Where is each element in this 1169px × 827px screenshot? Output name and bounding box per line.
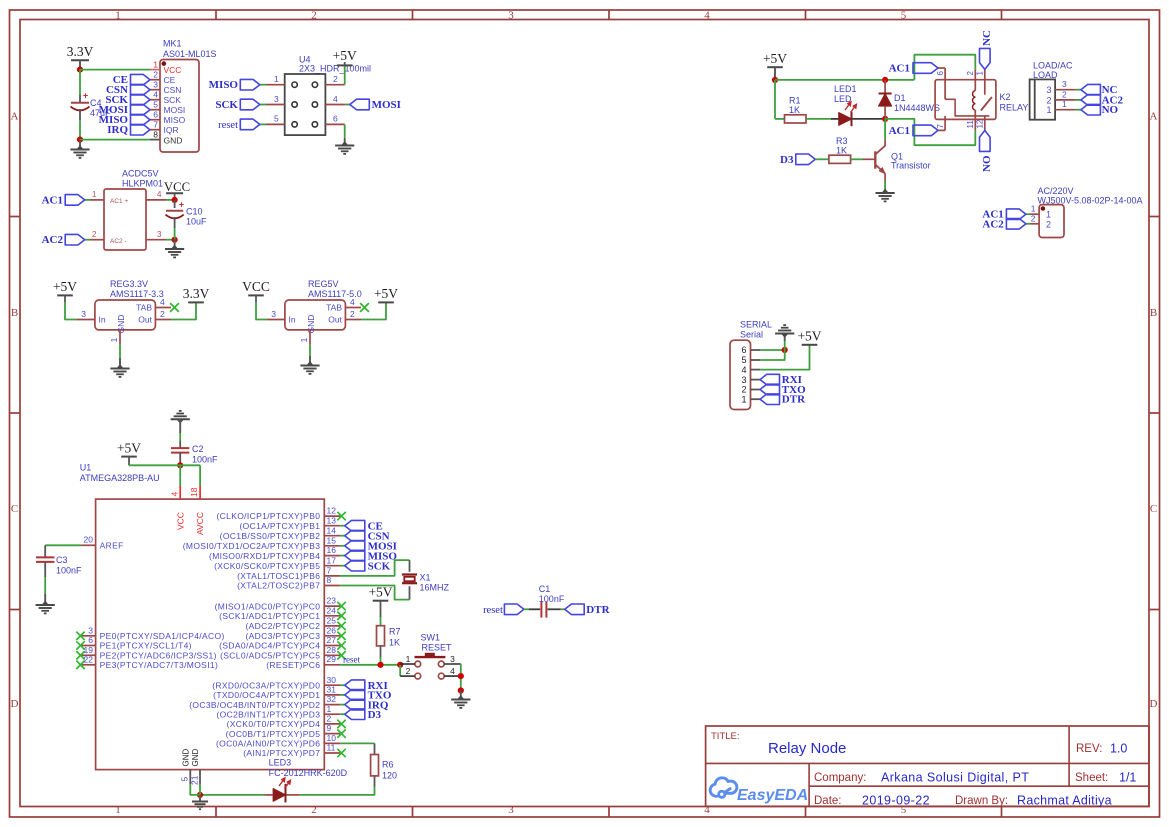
- MCU pin 13 PB1 to net CE: [324, 525, 340, 527]
- svg-text:reset: reset: [483, 605, 503, 616]
- svg-text:16MHZ: 16MHZ: [420, 583, 450, 593]
- svg-text:CE: CE: [164, 75, 176, 85]
- svg-text:1: 1: [741, 394, 746, 404]
- SERIAL pin 2 stub: [751, 389, 761, 391]
- svg-text:(XTAL1/TOSC1)PB6: (XTAL1/TOSC1)PB6: [237, 571, 320, 581]
- svg-text:SCK: SCK: [368, 560, 391, 572]
- svg-text:Relay Node: Relay Node: [768, 740, 846, 757]
- svg-text:5: 5: [153, 99, 158, 109]
- wire SERIAL pin6 to ground: [760, 349, 785, 351]
- power flag 3.3V at REG3.3V output: [188, 301, 204, 303]
- svg-text:1.0: 1.0: [1110, 742, 1127, 756]
- wire REG3.3V gnd: [119, 344, 121, 358]
- svg-text:3: 3: [450, 654, 455, 664]
- svg-text:23: 23: [327, 596, 337, 606]
- connector LOAD/AC body: [1030, 79, 1056, 119]
- svg-text:7: 7: [327, 565, 332, 575]
- svg-text:reset: reset: [218, 120, 238, 131]
- svg-text:AC1 +: AC1 +: [110, 198, 128, 205]
- svg-text:ACDC5V: ACDC5V: [122, 169, 159, 179]
- wire AREF to C3: [45, 544, 81, 546]
- svg-text:SCK: SCK: [215, 99, 238, 111]
- wire +5V to R7: [380, 617, 382, 626]
- net port reset at U4: [240, 119, 259, 130]
- relay K2 common contact path pin 6 pin 7: [944, 68, 946, 99]
- net port D3 at Q1 base: [796, 154, 816, 165]
- svg-text:+5V: +5V: [333, 48, 357, 63]
- REG3.3V pin 4 TAB no-connect: [155, 307, 171, 309]
- LOAD pin 2: [1055, 99, 1075, 101]
- net port MISO at U4: [240, 79, 259, 90]
- svg-text:100nF: 100nF: [192, 455, 218, 465]
- svg-text:5: 5: [741, 355, 746, 365]
- svg-text:Company:: Company:: [814, 772, 866, 784]
- wire SERIAL pin4 to +5V: [760, 345, 810, 369]
- MCU pin 1 PD3 to net D3: [324, 713, 340, 715]
- svg-text:Drawn By:: Drawn By:: [955, 795, 1008, 807]
- svg-text:2: 2: [741, 385, 746, 395]
- svg-text:11: 11: [966, 120, 975, 129]
- svg-text:(SCK1/ADC1/PTCY)PC1: (SCK1/ADC1/PTCY)PC1: [219, 611, 320, 621]
- svg-text:Serial: Serial: [740, 330, 763, 340]
- net port MISO at MCU: [345, 550, 365, 561]
- svg-text:2: 2: [327, 714, 332, 724]
- svg-text:3.3V: 3.3V: [183, 286, 210, 301]
- wire +5V down to R1: [774, 80, 776, 119]
- MCU pin 16 PB4 to net MISO: [324, 555, 340, 557]
- net port DTR at C1: [565, 604, 585, 615]
- MCU pin 10 PD6 to R6: [324, 742, 340, 744]
- wire gnd rail to MK1 pin 8: [80, 139, 150, 141]
- svg-text:WJ500V-5.08-02P-14-00A: WJ500V-5.08-02P-14-00A: [1038, 196, 1143, 206]
- svg-text:13: 13: [327, 515, 337, 525]
- svg-text:(XCK0/SCK0/PTCXY)PB5: (XCK0/SCK0/PTCXY)PB5: [214, 561, 320, 571]
- AC/220V pin 1: [1030, 213, 1039, 215]
- MCU pin 12 PB0 no-connect: [324, 515, 340, 517]
- svg-text:100nF: 100nF: [539, 594, 565, 604]
- svg-text:X1: X1: [420, 573, 431, 583]
- MK1 pin 7 IQR: [150, 129, 160, 131]
- svg-text:NO: NO: [1102, 104, 1119, 116]
- svg-text:IQR: IQR: [164, 125, 179, 135]
- MCU pin 7 PB6 XTAL1: [324, 575, 340, 577]
- svg-text:(MISO0/RXD1/PTCXY)PB4: (MISO0/RXD1/PTCXY)PB4: [209, 551, 320, 561]
- header U4 2X3_HDR_100mil body: [285, 74, 326, 135]
- junction dot ACDC5V gnd node: [172, 237, 178, 243]
- svg-text:3: 3: [157, 230, 162, 239]
- ground at U4: [344, 138, 346, 144]
- svg-text:1: 1: [1046, 105, 1051, 115]
- svg-text:5: 5: [274, 114, 279, 124]
- transistor Q1 NPN: [884, 140, 886, 146]
- wire PB6 to crystal X1 top: [340, 560, 409, 576]
- wire GND pins to junction: [190, 785, 200, 795]
- svg-text:LED3: LED3: [269, 758, 292, 768]
- junction dot D1 anode top: [882, 77, 888, 83]
- svg-text:VCC: VCC: [242, 279, 270, 294]
- svg-text:(XCK0/T0/PTCXY)PD4: (XCK0/T0/PTCXY)PD4: [227, 719, 321, 729]
- module ACDC5V HLKPM01 body: [104, 189, 146, 250]
- net port MOSI at MK1: [131, 104, 151, 115]
- svg-text:2: 2: [966, 71, 975, 76]
- relay K2 coil: [974, 70, 976, 91]
- svg-text:1: 1: [1031, 204, 1036, 214]
- relay K2 pin 1 NC contact: [984, 69, 986, 94]
- net port AC1 at relay pin 6: [938, 67, 945, 69]
- MCU pin 31 PD1 to net TXO: [324, 694, 340, 696]
- svg-text:15: 15: [327, 535, 337, 545]
- resistor R6 120: [371, 755, 379, 776]
- SW1 pin 1 connection: [400, 663, 415, 665]
- MCU pin 11 PD7 no-connect: [324, 752, 340, 754]
- wire +5V rail to D1 and relay: [775, 79, 914, 81]
- net port NC at LOAD: [1081, 84, 1101, 95]
- MCU pin 24 PC1 no-connect: [324, 615, 340, 617]
- regulator REG3.3V AMS1117-3.3 body: [95, 300, 155, 330]
- svg-text:VCC: VCC: [175, 512, 185, 530]
- svg-text:17: 17: [327, 555, 337, 565]
- MCU pin 20 AREF: [81, 544, 96, 546]
- wire Out to +5V flag: [361, 303, 386, 320]
- svg-text:+5V: +5V: [763, 51, 787, 66]
- svg-text:3: 3: [274, 94, 279, 104]
- U4 pin 3: [266, 104, 285, 106]
- relay K2 pin 12 NO contact: [984, 116, 986, 130]
- svg-text:GND: GND: [191, 749, 200, 767]
- svg-text:2: 2: [92, 230, 97, 239]
- svg-text:GND: GND: [116, 315, 126, 334]
- MCU pin 21 GND stub: [199, 770, 201, 785]
- svg-text:Transistor: Transistor: [891, 161, 931, 171]
- MCU pin 8 PB7 XTAL2: [324, 585, 340, 587]
- svg-text:EasyEDA: EasyEDA: [737, 787, 808, 804]
- svg-text:3: 3: [508, 804, 514, 816]
- ground above C2: [178, 420, 183, 423]
- svg-text:1/1: 1/1: [1119, 771, 1136, 785]
- svg-text:29: 29: [327, 654, 337, 664]
- SERIAL pin 3 stub: [751, 379, 761, 381]
- svg-text:1K: 1K: [789, 105, 800, 115]
- svg-text:NO: NO: [981, 155, 993, 172]
- net port SCK at MCU: [345, 560, 365, 571]
- wire LED3 to GND junction: [265, 794, 273, 796]
- svg-text:LED: LED: [834, 94, 852, 104]
- U4 pin 5: [266, 123, 285, 125]
- svg-text:4: 4: [333, 94, 338, 104]
- capacitor C1 100nF: [540, 602, 542, 618]
- relay K2 switch blade: [981, 97, 992, 111]
- svg-text:6: 6: [741, 345, 746, 355]
- junction dot LED3 gnd node: [197, 792, 203, 798]
- ground below REG5V: [309, 356, 311, 364]
- svg-text:A: A: [11, 111, 19, 123]
- svg-text:C1: C1: [539, 584, 551, 594]
- svg-text:24: 24: [327, 605, 337, 615]
- SW1 pin 2 connection: [399, 665, 401, 676]
- capacitor C3 100nF: [44, 545, 46, 557]
- title block frame: [706, 726, 1149, 806]
- capacitor C4 47uF: [79, 95, 81, 102]
- MCU pin 18 AVCC stub: [199, 486, 201, 499]
- svg-text:DTR: DTR: [782, 394, 806, 406]
- svg-text:PE1(PTCXY/SCL1/T4): PE1(PTCXY/SCL1/T4): [100, 641, 192, 651]
- resistor R3 1K: [829, 155, 851, 163]
- svg-text:4: 4: [153, 89, 158, 99]
- MCU pin 27 PC4 no-connect: [324, 645, 340, 647]
- svg-text:2: 2: [1031, 213, 1036, 223]
- net port reset at C1: [504, 604, 524, 615]
- svg-text:MOSI: MOSI: [164, 105, 186, 115]
- svg-text:1K: 1K: [836, 146, 847, 156]
- junction dot SW1 reset node: [397, 662, 403, 668]
- svg-text:(ADC2/PTCY)PC2: (ADC2/PTCY)PC2: [245, 621, 320, 631]
- MCU pin 3 PE0 no-connect: [81, 635, 96, 637]
- wire D3 to R3: [815, 158, 829, 160]
- svg-text:1: 1: [153, 59, 158, 69]
- svg-text:4: 4: [350, 297, 355, 307]
- svg-text:R1: R1: [789, 96, 801, 106]
- svg-text:1: 1: [406, 654, 411, 664]
- ground below C4: [79, 140, 81, 148]
- svg-text:1: 1: [327, 704, 332, 714]
- svg-text:AVCC: AVCC: [195, 512, 205, 535]
- net port AC1 at ACDC5V: [65, 195, 85, 206]
- svg-text:REG3.3V: REG3.3V: [110, 279, 148, 289]
- net port IRQ at MCU PD: [345, 699, 365, 710]
- svg-text:2: 2: [1046, 95, 1051, 105]
- svg-text:14: 14: [327, 525, 337, 535]
- wire reset flag to C1: [524, 608, 529, 610]
- svg-text:3: 3: [508, 10, 514, 22]
- svg-text:R3: R3: [836, 136, 848, 146]
- svg-text:R7: R7: [389, 627, 401, 637]
- MK1 pin 6 MISO: [150, 119, 160, 121]
- REG3.3V pin 3 In: [77, 319, 95, 321]
- connector AC/220V WJ500V body: [1039, 205, 1064, 238]
- wire SW1 to ground: [460, 664, 462, 691]
- net port TXO at MCU PD: [345, 690, 365, 701]
- MK1 pin 1 VCC: [150, 69, 160, 71]
- svg-text:C10: C10: [186, 207, 203, 217]
- svg-text:+5V: +5V: [368, 585, 392, 600]
- svg-text:1: 1: [1062, 99, 1067, 109]
- svg-text:PE0(PTCXY/SDA1/ICP4/ACO): PE0(PTCXY/SDA1/ICP4/ACO): [100, 631, 225, 641]
- capacitor C2 100nF: [179, 441, 181, 448]
- junction dot C2 +5V node: [177, 462, 183, 468]
- ACDC5V pin 4: [146, 199, 166, 201]
- net port SCK at MK1: [131, 94, 151, 105]
- svg-text:RESET: RESET: [422, 643, 453, 653]
- svg-text:+5V: +5V: [53, 279, 77, 294]
- svg-text:SCK: SCK: [164, 95, 182, 105]
- net port SCK at U4: [240, 99, 259, 110]
- svg-text:1: 1: [1046, 210, 1051, 220]
- svg-text:1: 1: [976, 71, 985, 76]
- power flag +5V at SERIAL: [802, 344, 818, 346]
- net port AC2 at AC/220V: [1006, 219, 1026, 230]
- svg-text:27: 27: [327, 635, 337, 645]
- svg-text:(RXD0/OC3A/PTCXY)PD0: (RXD0/OC3A/PTCXY)PD0: [212, 680, 320, 690]
- ACDC5V pin 2: [90, 239, 104, 241]
- MCU pin 15 PB3 to net MOSI: [324, 545, 340, 547]
- ground below C10: [174, 240, 176, 248]
- svg-text:Sheet:: Sheet:: [1075, 772, 1108, 784]
- wire reset net PC6 to R7 and SW1: [340, 664, 400, 666]
- net port TXO at SERIAL: [760, 384, 780, 395]
- wire R6 to LED3: [374, 776, 376, 787]
- svg-text:AC1: AC1: [889, 63, 910, 75]
- REG3.3V pin 2 Out: [155, 319, 171, 321]
- svg-text:AC2: AC2: [42, 234, 64, 246]
- svg-text:LED1: LED1: [834, 84, 857, 94]
- svg-text:C3: C3: [56, 555, 68, 565]
- svg-text:22: 22: [84, 654, 94, 664]
- svg-text:Rachmat Aditiya: Rachmat Aditiya: [1017, 794, 1112, 808]
- net port MISO at MK1: [131, 114, 151, 125]
- svg-text:MISO: MISO: [164, 115, 186, 125]
- MCU U1 ATMEGA328PB-AU body: [96, 499, 325, 769]
- wire 3.3V to MK1 VCC pin 1: [80, 69, 150, 71]
- svg-text:19: 19: [84, 645, 94, 655]
- svg-text:Arkana Solusi Digital, PT: Arkana Solusi Digital, PT: [881, 771, 1029, 785]
- svg-text:(XTAL2/TOSC2)PB7: (XTAL2/TOSC2)PB7: [237, 581, 320, 591]
- svg-text:21: 21: [189, 775, 199, 785]
- MCU pin 29 PC6 RESET: [324, 664, 340, 666]
- SW1 pin 3 connection: [444, 663, 461, 665]
- svg-text:2: 2: [311, 10, 317, 22]
- wire gnd to C2: [179, 433, 181, 441]
- svg-text:AC2: AC2: [982, 218, 1004, 230]
- svg-text:1: 1: [115, 10, 121, 22]
- svg-text:In: In: [289, 315, 296, 325]
- svg-text:8: 8: [153, 129, 158, 139]
- svg-text:7: 7: [153, 119, 158, 129]
- svg-text:SW1: SW1: [421, 633, 441, 643]
- svg-text:HLKPM01: HLKPM01: [122, 179, 163, 189]
- junction dot SW1 pin4 node: [458, 673, 464, 679]
- svg-text:VCC: VCC: [164, 180, 190, 194]
- svg-text:B: B: [1150, 307, 1157, 319]
- svg-text:1: 1: [115, 804, 121, 816]
- U4 pin 1: [266, 84, 285, 86]
- svg-text:GND: GND: [182, 749, 191, 767]
- net port CSN at MK1: [131, 84, 151, 95]
- svg-text:3: 3: [1062, 79, 1067, 89]
- svg-text:4: 4: [704, 10, 710, 22]
- svg-text:(ADC3/PTCY)PC3: (ADC3/PTCY)PC3: [245, 631, 320, 641]
- svg-text:16: 16: [327, 545, 337, 555]
- svg-text:AC1: AC1: [889, 125, 910, 137]
- svg-text:C: C: [1150, 503, 1157, 515]
- MCU pin 5 GND stub: [189, 770, 191, 785]
- svg-text:+5V: +5V: [797, 329, 821, 344]
- svg-text:6: 6: [153, 109, 158, 119]
- svg-text:5: 5: [901, 10, 907, 22]
- net port DTR at SERIAL: [760, 394, 780, 405]
- MCU pin 30 PD0 to net RXI: [324, 684, 340, 686]
- svg-text:R6: R6: [382, 760, 394, 770]
- svg-text:10: 10: [327, 733, 337, 743]
- svg-text:D: D: [1150, 698, 1158, 710]
- svg-text:AMS1117-3.3: AMS1117-3.3: [110, 289, 164, 299]
- ACDC5V pin 1: [90, 199, 104, 201]
- net port CE at MK1: [131, 74, 151, 85]
- LED LED1: [839, 113, 852, 126]
- svg-text:MISO: MISO: [209, 79, 239, 91]
- REG5V pin 4 TAB no-connect: [345, 307, 361, 309]
- module MK1 AS01-ML01S body: [160, 60, 199, 153]
- net port AC2 at LOAD: [1081, 95, 1101, 106]
- svg-text:(MOSI0/TXD1/OC2A/PTCXY)PB3: (MOSI0/TXD1/OC2A/PTCXY)PB3: [183, 541, 321, 551]
- svg-text:TAB: TAB: [136, 303, 152, 313]
- svg-text:D: D: [11, 698, 19, 710]
- svg-text:2: 2: [153, 69, 158, 79]
- svg-text:2: 2: [333, 74, 338, 84]
- MCU pin 9 PD5 no-connect: [324, 733, 340, 735]
- MK1 pin 5 MOSI: [150, 109, 160, 111]
- ground below MCU: [199, 795, 201, 801]
- wire Out to 3.3V flag: [171, 303, 196, 320]
- MCU pin 25 PC2 no-connect: [324, 625, 340, 627]
- svg-text:3: 3: [741, 375, 746, 385]
- svg-text:CSN: CSN: [164, 85, 182, 95]
- regulator REG5V AMS1117-5.0 body: [285, 300, 346, 330]
- svg-text:2: 2: [311, 804, 317, 816]
- SERIAL pin 6 stub: [751, 349, 761, 351]
- net port RXI at SERIAL: [760, 374, 780, 385]
- MCU pin 6 PE1 no-connect: [81, 645, 96, 647]
- MCU pin 28 PC5 no-connect: [324, 654, 340, 656]
- svg-text:7: 7: [936, 124, 945, 129]
- svg-text:C: C: [11, 503, 18, 515]
- wire PD6 to R6: [340, 742, 374, 744]
- U4 pin 2: [325, 84, 344, 86]
- LOAD pin 1: [1055, 109, 1075, 111]
- junction dot VCC node: [172, 197, 178, 203]
- wire LED1 to collector node: [852, 118, 886, 120]
- MK1 pin 4 SCK: [150, 99, 160, 101]
- svg-text:3: 3: [271, 309, 276, 319]
- svg-text:AS01-ML01S: AS01-ML01S: [163, 49, 217, 59]
- svg-text:(OC2B/INT1/PTCXY)PD3: (OC2B/INT1/PTCXY)PD3: [216, 709, 320, 719]
- svg-text:GND: GND: [306, 315, 316, 334]
- net port IRQ at MK1: [131, 124, 151, 135]
- svg-text:4: 4: [169, 492, 179, 497]
- wire U4 pin2 to +5V: [344, 66, 346, 85]
- svg-text:120: 120: [382, 771, 397, 781]
- junction dot LED-D1-collector node: [882, 116, 888, 122]
- svg-text:In: In: [99, 315, 106, 325]
- crystal X1 16MHZ: [402, 573, 417, 575]
- svg-text:+5V: +5V: [374, 286, 398, 301]
- U4 pin 6: [325, 123, 344, 125]
- net port AC1 at relay pin 7: [938, 129, 945, 131]
- svg-text:D3: D3: [780, 154, 794, 166]
- net port CE at MCU: [345, 520, 365, 531]
- junction dot R7 reset node: [377, 662, 383, 668]
- svg-text:(OC0A/AIN0/PTCXY)PD6: (OC0A/AIN0/PTCXY)PD6: [216, 739, 320, 749]
- power flag +5V at U4: [337, 64, 353, 66]
- resistor R1 1K: [775, 118, 785, 120]
- REG5V pin 1 GND stub: [309, 330, 311, 344]
- MK1 pin 8 GND: [150, 139, 160, 141]
- ACDC5V pin 3: [146, 239, 166, 241]
- svg-text:2019-09-22: 2019-09-22: [862, 794, 930, 808]
- svg-text:LOAD/AC: LOAD/AC: [1033, 61, 1073, 71]
- svg-text:100nF: 100nF: [56, 566, 82, 576]
- svg-text:D1: D1: [894, 93, 906, 103]
- REG5V pin 2 Out: [345, 319, 361, 321]
